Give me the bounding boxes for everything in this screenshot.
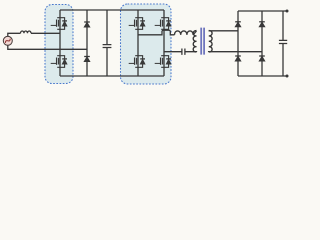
inductor L1 (boost): [21, 31, 32, 33]
wire leg A midpoint to inductor (with hop over leg B): [138, 30, 175, 35]
wire PFC diode leg: [86, 10, 88, 76]
wire leg B midpoint to blocking capacitor: [164, 51, 182, 53]
capacitor C1 dc-link plates: [103, 45, 112, 48]
diode D1 (PFC leg top): [84, 22, 90, 27]
diode D4 (rectifier leg2 top): [259, 22, 265, 27]
wire inductor to transformer primary: [193, 31, 196, 35]
node output positive terminal: [286, 10, 289, 13]
wire rectifier leg 1: [237, 11, 239, 76]
wire inductor to leg1 midpoint: [31, 32, 60, 34]
wire secondary bottom lead: [209, 51, 262, 53]
mosfet Q5 (DAB leg A bottom): [129, 56, 145, 68]
diode D2 (PFC leg bottom): [84, 57, 90, 62]
wire bottom dc rail: [60, 75, 164, 77]
wire blocking capacitor to primary bottom: [185, 51, 196, 53]
mosfet Q2 (PFC bottom): [51, 56, 67, 68]
wire ac source bottom return: [8, 45, 87, 49]
highlight box bridge leg 1 (PFC fast leg): [45, 5, 73, 84]
mosfet Q4 (DAB leg B top): [155, 18, 171, 30]
highlight box full bridge (DAB primary): [121, 4, 172, 84]
mosfet Q3 (DAB leg A top): [129, 18, 145, 30]
diode D6 (rectifier leg2 bottom): [259, 56, 265, 61]
capacitor C2 dc-blocking plates: [182, 49, 185, 55]
transformer T1 core: [201, 28, 204, 55]
wire rectifier bottom rail: [238, 75, 287, 77]
wire DAB leg B: [163, 10, 165, 76]
wire ac source top lead: [8, 33, 21, 36]
node output negative terminal: [286, 75, 289, 78]
inductor L2 (series): [175, 31, 194, 35]
wire dc-link capacitor leg: [106, 10, 108, 76]
transformer T1 primary winding: [193, 31, 196, 52]
diode D3 (rectifier leg1 top): [235, 22, 241, 27]
wire PFC fast leg: [59, 10, 61, 76]
diode D5 (rectifier leg1 bottom): [235, 56, 241, 61]
capacitor C3 output plates: [279, 40, 287, 43]
wire DAB leg A: [137, 10, 139, 76]
wire secondary top lead: [209, 30, 238, 32]
transformer T1 secondary winding: [209, 31, 212, 52]
ac source V1: [3, 36, 12, 45]
wire output capacitor leg: [282, 11, 284, 76]
mosfet Q1 (PFC top): [51, 18, 67, 30]
wire rectifier leg 2: [261, 11, 263, 76]
mosfet Q6 (DAB leg B bottom): [155, 56, 171, 68]
wire top dc rail: [60, 9, 164, 11]
wire rectifier top rail: [238, 10, 287, 12]
